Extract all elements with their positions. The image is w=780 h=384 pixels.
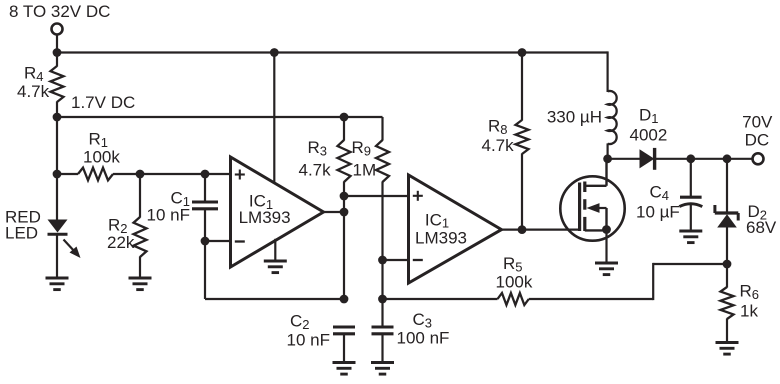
label R9 value 1M [353, 160, 377, 179]
node VIN input terminal [52, 24, 63, 35]
ground C2 [333, 363, 356, 375]
IC1b minus sign [413, 259, 423, 261]
node top rail to R8 junction [518, 48, 527, 57]
svg-text:DC: DC [745, 130, 770, 149]
label R2 value 22k [107, 233, 135, 252]
svg-text:LM393: LM393 [415, 229, 467, 248]
wire 1.7V rail [57, 116, 383, 118]
wire IC1a V+ from top rail [273, 53, 275, 184]
wire C3 top lead [381, 299, 383, 327]
node 1.7V junction [53, 113, 62, 122]
node top rail to IC1a V+ junction [270, 48, 279, 57]
node R1 row left junction [53, 170, 62, 179]
label D2 [748, 202, 768, 222]
node D2/R6/feedback junction [723, 260, 732, 269]
label IC1b part LM393 [415, 229, 467, 248]
LED arrow [64, 240, 81, 259]
label 70V [742, 113, 773, 132]
svg-text:4.7k: 4.7k [299, 160, 332, 179]
ground R2 [129, 278, 152, 290]
diode D1 [640, 148, 655, 170]
label DC [745, 130, 770, 149]
capacitor C2 [333, 327, 355, 334]
label LED [5, 224, 38, 243]
svg-text:330 µH: 330 µH [547, 108, 602, 127]
wire C4 bottom lead [690, 205, 692, 232]
wire D2 bottom lead [726, 227, 728, 264]
wire feedback row right segment [529, 298, 653, 300]
Q1 gate bar [578, 183, 581, 232]
wire top rail corner to inductor [606, 51, 608, 92]
op-amp IC1b LM393 [409, 175, 502, 283]
svg-text:4.7k: 4.7k [17, 82, 50, 101]
wire C4 top lead [690, 159, 692, 197]
svg-text:100k: 100k [496, 273, 533, 292]
label IC1a part LM393 [239, 208, 291, 227]
wire R6 top lead [726, 264, 728, 288]
wire R3 bottom lead [343, 182, 345, 197]
node R3 top junction [340, 113, 349, 122]
label R8 value 4.7k [482, 136, 515, 155]
wire IC1a output [324, 211, 345, 213]
label C1 value 10 nF [147, 206, 190, 225]
wire R9 bottom lead [381, 182, 383, 300]
IC1b plus sign [413, 191, 423, 201]
label R1 value 100k [83, 147, 120, 166]
label D1 [639, 106, 659, 126]
svg-text:10 nF: 10 nF [147, 206, 190, 225]
op-amp IC1a LM393 [231, 157, 324, 267]
svg-text:1k: 1k [740, 301, 758, 320]
svg-text:LED: LED [5, 224, 38, 243]
svg-text:10 nF: 10 nF [287, 331, 330, 350]
node C3 top junction [378, 295, 387, 304]
label 8 TO 32V DC [9, 2, 110, 21]
Q1 source link [585, 229, 607, 231]
zener diode D2 [715, 205, 739, 228]
wire R8 bottom lead [521, 154, 523, 230]
Q1 body arrow [587, 203, 607, 230]
wire comparator2 plus input [344, 195, 409, 197]
resistor R1 [78, 168, 113, 181]
svg-text:1.7V DC: 1.7V DC [71, 93, 135, 112]
label R6 [740, 282, 760, 302]
svg-text:100 nF: 100 nF [397, 329, 450, 348]
wire feedback right segment [653, 263, 727, 265]
svg-text:100k: 100k [83, 147, 120, 166]
wire feedback row left segment [205, 298, 344, 300]
node input/top-rail junction [53, 48, 62, 57]
ground LED [46, 278, 69, 290]
wire R4 bottom lead [56, 102, 58, 118]
node C4 top junction [686, 154, 695, 163]
label C3 [413, 310, 433, 330]
resistor R9 [376, 140, 389, 182]
node R2 top junction [136, 170, 145, 179]
label C3 value 100 nF [397, 329, 450, 348]
wire input column to LED row [56, 117, 58, 221]
resistor R6 [721, 287, 734, 319]
ground Q1 [595, 263, 618, 275]
wire feedback jog down [652, 263, 654, 300]
svg-text:8 TO 32V DC: 8 TO 32V DC [9, 2, 110, 21]
wire R3 top lead [343, 117, 345, 141]
node inductor/drain/D1 junction [603, 154, 612, 163]
wire R2 bottom lead [139, 257, 141, 279]
label R6 value 1k [740, 301, 758, 320]
label R2 [108, 216, 128, 236]
capacitor C4 polarized [679, 197, 702, 206]
transistor Q1 MOSFET body circle [560, 176, 624, 240]
ground C4 [679, 231, 702, 243]
wire R2 top lead [139, 174, 141, 218]
svg-text:22k: 22k [107, 233, 135, 252]
capacitor C3 [372, 327, 394, 334]
node IC1a output junction [340, 208, 349, 217]
node C2 top junction [340, 295, 349, 304]
label IC1a designator [249, 191, 273, 211]
wire inductor bottom lead [606, 143, 608, 158]
wire C1 junction to IC1a minus [205, 240, 231, 242]
label R8 [488, 117, 508, 137]
label R3 value 4.7k [299, 160, 332, 179]
label RED [5, 208, 41, 227]
wire LED cathode to ground [56, 234, 58, 278]
wire C3 bottom lead [381, 334, 383, 363]
resistor R3 [338, 140, 351, 182]
capacitor C1 [192, 202, 218, 209]
IC1a minus sign [235, 240, 245, 242]
wire D1 anode lead [608, 158, 640, 160]
resistor R2 [134, 217, 147, 257]
wire Q1 source to ground [605, 230, 607, 264]
svg-text:4.7k: 4.7k [482, 136, 515, 155]
ground IC1a [264, 261, 287, 273]
label D1 part 4002 [630, 126, 668, 145]
wire top supply rail [57, 51, 608, 53]
wire R1 left lead [57, 173, 78, 175]
label C4 [650, 183, 670, 203]
svg-text:LM393: LM393 [239, 208, 291, 227]
label R3 [308, 138, 328, 158]
node C1 top junction [201, 170, 210, 179]
svg-text:70V: 70V [742, 113, 773, 132]
node R3 bottom junction [340, 192, 349, 201]
wire D2 top lead [726, 159, 728, 214]
wire R4 top lead [56, 53, 58, 67]
label R5 [503, 254, 523, 274]
LED D3 red [48, 220, 68, 235]
wire R6 bottom lead [726, 319, 728, 343]
wire R8 top lead [521, 53, 523, 121]
Q1 channel bar dashed [583, 182, 586, 232]
label R4 [24, 64, 44, 84]
IC1a plus sign [235, 170, 245, 180]
label R1 [89, 130, 109, 150]
wire D1 cathode to output terminal [655, 158, 753, 160]
wire R9 top lead [381, 117, 383, 141]
wire feedback row mid segment [383, 298, 498, 300]
inductor L1 330uH [608, 91, 617, 144]
label 330 uH [547, 108, 602, 127]
label C2 [290, 312, 310, 332]
svg-text:4002: 4002 [630, 126, 668, 145]
label R9 [352, 138, 372, 158]
wire IC1a ground stem [274, 239, 276, 261]
wire C1 bottom lead [204, 209, 206, 241]
wire C2 bottom lead [343, 334, 345, 363]
node D2 top junction [723, 154, 732, 163]
ground C3 [371, 363, 394, 375]
resistor R4 [51, 66, 64, 102]
node R8 bottom junction [518, 225, 527, 234]
node Q1 source junction [602, 225, 611, 234]
svg-text:68V: 68V [746, 218, 777, 237]
svg-text:10 µF: 10 µF [636, 203, 680, 222]
node R9 / IC1b inverting junction [378, 256, 387, 265]
label C1 [170, 189, 190, 209]
label R5 value 100k [496, 273, 533, 292]
svg-text:1M: 1M [353, 160, 377, 179]
ground R6 [716, 343, 739, 355]
wire input terminal to top rail [56, 35, 58, 53]
resistor R8 [516, 120, 529, 154]
node C1 / IC1a inverting junction [201, 237, 210, 246]
wire C1 junction down to feedback row [204, 241, 206, 299]
wire IC1b minus input [383, 259, 409, 261]
wire R1 right lead [113, 173, 231, 175]
node VOUT terminal [753, 153, 764, 164]
label 1.7V DC [71, 93, 135, 112]
label C4 value 10 uF [636, 203, 680, 222]
wire C1 top lead [204, 174, 206, 202]
resistor R5 [498, 293, 529, 305]
label R4 value 4.7k [17, 82, 50, 101]
label C2 value 10 nF [287, 331, 330, 350]
label IC1b designator [425, 210, 449, 230]
label D2 value 68V [746, 218, 777, 237]
Q1 drain link [585, 159, 607, 186]
wire R3 bottom node to output node to C2 [343, 196, 345, 299]
wire IC1b output to MOSFET gate [502, 229, 580, 231]
